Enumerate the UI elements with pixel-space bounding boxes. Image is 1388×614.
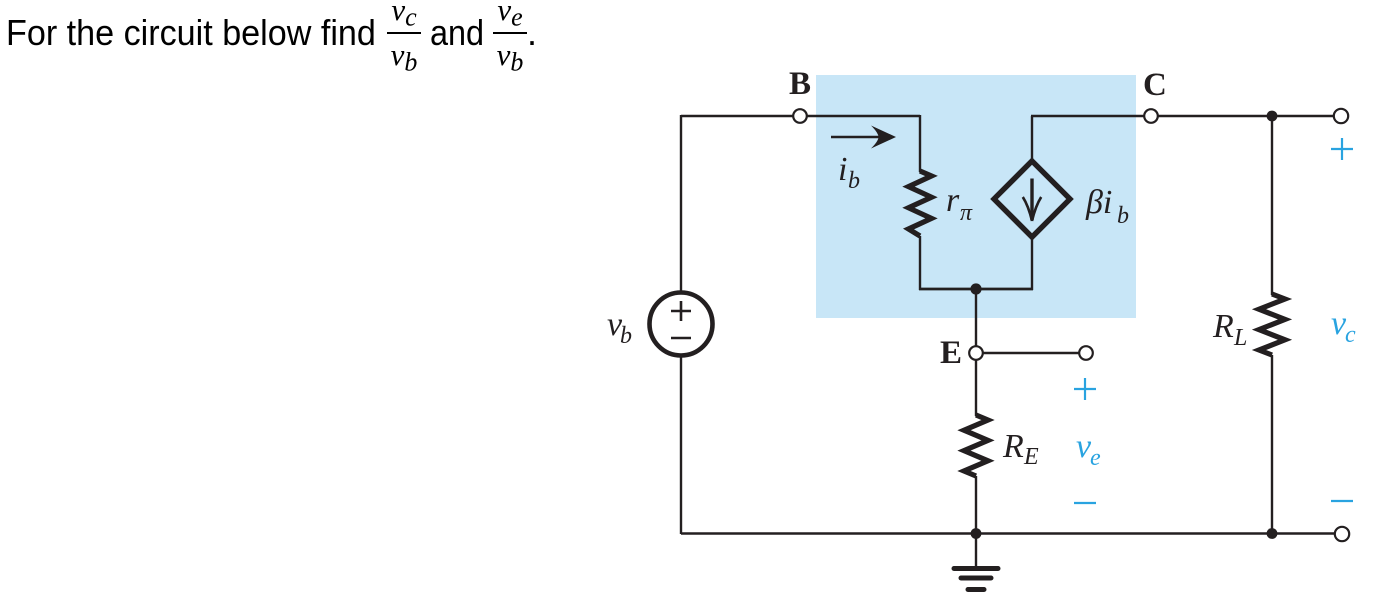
svg-text:C: C (1143, 67, 1167, 103)
wire: model bottom rail (919, 288, 1033, 291)
current arrow i_b (831, 126, 896, 149)
svg-text:e: e (1090, 445, 1101, 471)
output terminal bottom right (1335, 527, 1349, 541)
problem statement text (6, 15, 376, 51)
label r_pi (946, 182, 973, 226)
svg-text:r: r (946, 182, 960, 219)
wire: emitter junction down to node E (975, 289, 977, 347)
wire: diamond top up and over to node C (1031, 116, 1334, 162)
label R_L (1212, 308, 1247, 351)
svg-text:i: i (838, 151, 847, 188)
node B terminal (793, 109, 807, 123)
voltage source v_b (650, 293, 713, 356)
label R_E (1002, 428, 1039, 470)
wire: bottom ground rail (681, 532, 1334, 534)
dependent current source beta*i_b (994, 161, 1070, 237)
wire: node E down to R_E (975, 360, 977, 416)
ground (954, 533, 998, 590)
wire: node E to emitter output terminal (983, 352, 1079, 354)
wire: collector down to R_L (1271, 116, 1273, 295)
output terminal top right (1334, 109, 1348, 123)
junction at R_L bottom (1267, 528, 1278, 539)
svg-text:b: b (620, 323, 632, 349)
label v_c (1331, 305, 1356, 348)
label B (789, 66, 811, 102)
svg-text:R: R (1002, 428, 1024, 465)
svg-text:b: b (848, 168, 860, 194)
label C (1143, 67, 1167, 103)
node E terminal (969, 346, 983, 360)
junction at R_E bottom (971, 528, 982, 539)
plus sign v_e (1074, 378, 1096, 400)
wire: R_L bottom to ground rail (1271, 355, 1273, 534)
junction at collector rail (1267, 111, 1278, 122)
svg-text:E: E (940, 335, 962, 371)
wire: diamond bottom to rail (1031, 236, 1033, 290)
wire: top left from source to node B to r_pi corner (681, 115, 920, 172)
label E (940, 335, 962, 371)
label v_b (607, 306, 632, 349)
resistor R_E (964, 415, 988, 476)
svg-text:c: c (1345, 322, 1356, 348)
plus sign v_c (1331, 138, 1353, 160)
wire: left branch down to voltage source and bottom (680, 115, 682, 534)
svg-text:π: π (960, 200, 973, 226)
wire: r_pi bottom to model bottom rail (919, 236, 921, 290)
node C terminal (1144, 109, 1158, 123)
svg-text:E: E (1023, 444, 1039, 470)
label i_b (838, 151, 860, 194)
transistor small-signal model shaded region (816, 75, 1136, 318)
resistor r_pi (909, 171, 932, 236)
svg-text:βi: βi (1085, 184, 1112, 221)
output terminal emitter (1079, 346, 1093, 360)
resistor R_L (1259, 294, 1285, 355)
minus sign v_e (1074, 502, 1096, 504)
label beta i_b (1085, 184, 1129, 229)
minus sign v_c (1331, 500, 1353, 502)
svg-text:b: b (1117, 203, 1129, 229)
svg-text:R: R (1212, 308, 1234, 345)
svg-text:B: B (789, 66, 811, 102)
label v_e (1076, 428, 1101, 471)
svg-text:L: L (1233, 325, 1247, 351)
wire: R_E bottom to ground rail (975, 476, 977, 534)
junction at emitter rail (970, 283, 981, 294)
